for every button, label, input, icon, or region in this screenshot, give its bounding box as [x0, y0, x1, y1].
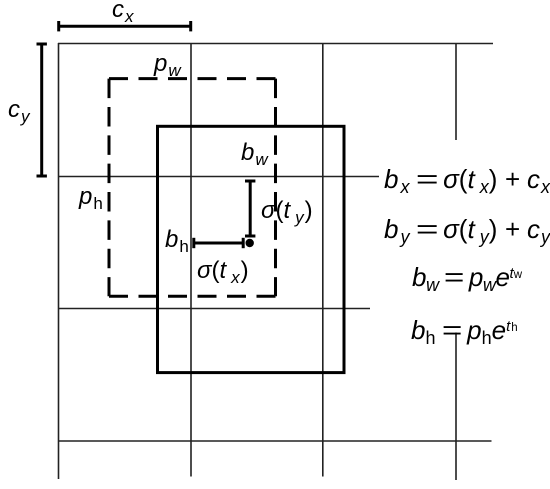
c_y measure bottom tick	[37, 175, 47, 178]
sigma(t_y) measure top tick	[245, 180, 255, 183]
sigma(t_y) measure bottom tick	[245, 235, 255, 238]
grid vertical line v1	[58, 43, 60, 479]
label b_h	[165, 228, 189, 255]
sigma(t_x) measure line	[194, 242, 243, 245]
equation b_x	[384, 166, 550, 196]
c_y measure top tick	[37, 43, 47, 46]
equation b_w	[412, 264, 522, 294]
predicted bounding box (solid)	[158, 126, 345, 372]
c_x measure left tick	[57, 21, 60, 31]
c_y measure line	[40, 44, 43, 176]
grid horizontal line h1	[58, 43, 493, 45]
sigma(t_x) measure left tick	[192, 238, 195, 248]
label sigma(t_x)	[197, 259, 249, 286]
grid vertical line v4 lower segment	[455, 333, 457, 481]
grid horizontal line h3	[58, 308, 370, 310]
grid vertical line v2	[190, 43, 192, 477]
c_x measure right tick	[189, 21, 192, 31]
grid vertical line v3	[322, 43, 324, 477]
sigma(t_x) measure right tick	[242, 238, 245, 248]
label p_w	[154, 52, 181, 79]
grid horizontal line h2	[58, 176, 379, 178]
grid vertical line v4 upper segment	[455, 43, 457, 140]
label c_x	[112, 0, 134, 25]
label sigma(t_y)	[261, 199, 313, 226]
equation b_h	[411, 317, 518, 347]
label c_y	[8, 98, 30, 125]
anchor prior box (dashed) bottom edge	[109, 295, 276, 298]
anchor prior box (dashed) top edge	[109, 77, 276, 80]
grid horizontal line h4	[58, 440, 492, 442]
label p_h	[79, 185, 103, 212]
c_x measure line	[59, 25, 191, 28]
anchor prior box (dashed) left edge	[108, 79, 111, 297]
label b_w	[241, 141, 268, 168]
center dot (b_x, b_y)	[246, 239, 254, 247]
anchor prior box (dashed) right edge	[274, 79, 277, 297]
equation b_y	[384, 216, 550, 246]
sigma(t_y) measure line	[249, 181, 252, 236]
